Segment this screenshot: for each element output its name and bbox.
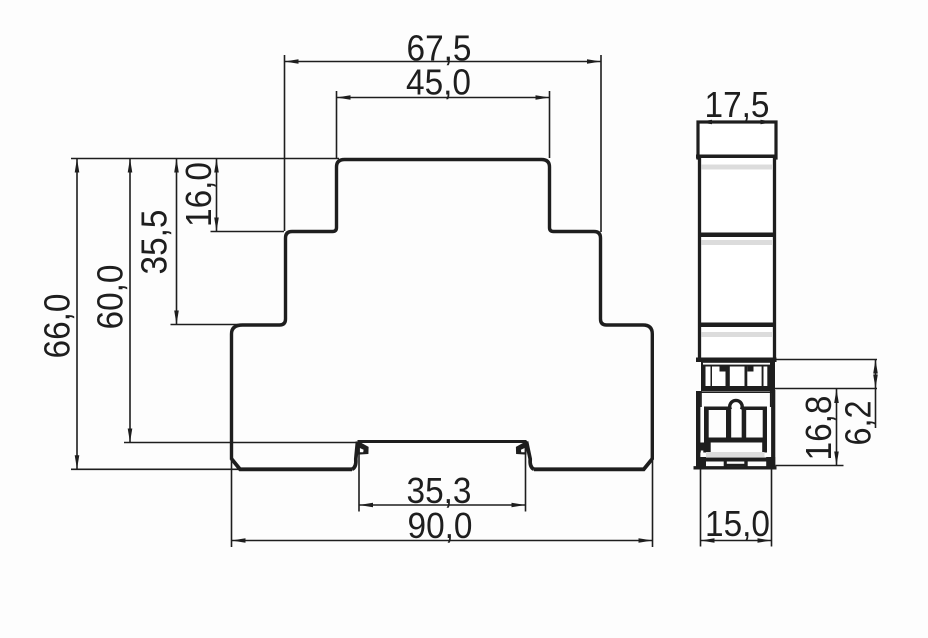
DIN slot barb right (516, 441, 527, 455)
svg-text:16,8: 16,8 (798, 396, 839, 461)
dim 45,0 line (337, 97, 550, 99)
90,0 ext right (652, 461, 654, 547)
top reference extension line (71, 158, 339, 160)
mid box top edge (704, 407, 767, 411)
gray band 3 (702, 332, 774, 337)
foot corner left (700, 457, 706, 467)
svg-text:66,0: 66,0 (37, 294, 78, 359)
outer walls (696, 391, 700, 467)
dim 67,5 line (285, 61, 602, 63)
dimension labels front view (37, 28, 473, 547)
front view enclosure outline (232, 160, 653, 470)
center white slot (731, 408, 741, 438)
dim 17,5 line (698, 121, 775, 123)
45,0 ext right (549, 91, 551, 158)
dim 66,0 line (76, 159, 78, 470)
arrowheads side view (698, 120, 878, 543)
enclosure bottom edge left (232, 459, 353, 470)
svg-text:90,0: 90,0 (408, 505, 473, 546)
dim 16,8 line (836, 389, 838, 466)
enclosure stepped right side (542, 160, 653, 460)
svg-text:60,0: 60,0 (90, 265, 131, 330)
dim 35,3 line (359, 504, 526, 506)
right ext bottom (16,8 bottom) (776, 465, 844, 467)
dimension labels side view (705, 84, 879, 544)
bottom line (694, 466, 777, 469)
svg-text:6,2: 6,2 (838, 401, 879, 446)
gray band 2 (702, 240, 774, 245)
lower clip block (694, 390, 777, 468)
enclosure bottom edge right (534, 459, 652, 470)
lower slot black sides (700, 443, 711, 453)
foot corner right (766, 457, 775, 467)
35,3 ext left (358, 443, 360, 512)
mid box columns (704, 408, 709, 438)
arch (730, 400, 742, 409)
45,0 ext left (336, 91, 338, 158)
16,0 extension (211, 231, 285, 233)
dimension thin lines (71, 55, 653, 547)
66,0 bottom extension (71, 468, 240, 470)
right ext mid (6,2 bottom / 16,8 top) (774, 388, 877, 390)
dim 15,0 line (701, 540, 772, 542)
90,0 ext left (231, 461, 233, 547)
svg-text:35,5: 35,5 (134, 210, 175, 275)
gray strip (706, 452, 765, 457)
divider 2 (698, 323, 776, 328)
67,5 ext right (600, 55, 602, 232)
svg-text:17,5: 17,5 (705, 84, 770, 125)
DIN slot floor (358, 440, 527, 443)
svg-text:15,0: 15,0 (705, 503, 770, 544)
cap bottom thick band (696, 155, 778, 159)
15,0 ext left (700, 469, 702, 547)
gray band 1 (702, 165, 774, 170)
dim 16,0 line (216, 159, 218, 232)
67,5 ext left (284, 55, 286, 231)
right ext top (6,2 top) (776, 359, 877, 361)
60,0 extension (124, 442, 358, 444)
enclosure stepped left side (232, 160, 345, 460)
dim 60,0 line (129, 159, 131, 443)
feet dividers (724, 462, 727, 467)
mid box bottom edge (704, 438, 767, 443)
divider 1 (698, 233, 776, 238)
dim 35,5 line (176, 159, 178, 325)
dim 90,0 line (232, 540, 653, 542)
DIN slot right wall (527, 442, 535, 470)
side view top cap (698, 122, 776, 158)
DIN slot left wall (352, 442, 358, 470)
svg-text:16,0: 16,0 (178, 162, 219, 227)
enclosure top edge (345, 158, 542, 161)
side view body (698, 158, 776, 360)
black band (704, 458, 767, 462)
35,3 ext right (525, 443, 527, 512)
side view dimension lines (698, 122, 877, 547)
terminal row (696, 358, 777, 392)
svg-text:45,0: 45,0 (406, 62, 471, 103)
arrowheads front view (75, 59, 653, 543)
dim 6,2 line (875, 360, 877, 429)
35,5 extension (171, 324, 285, 326)
15,0 ext right (771, 469, 773, 547)
DIN slot barb left (358, 441, 369, 455)
